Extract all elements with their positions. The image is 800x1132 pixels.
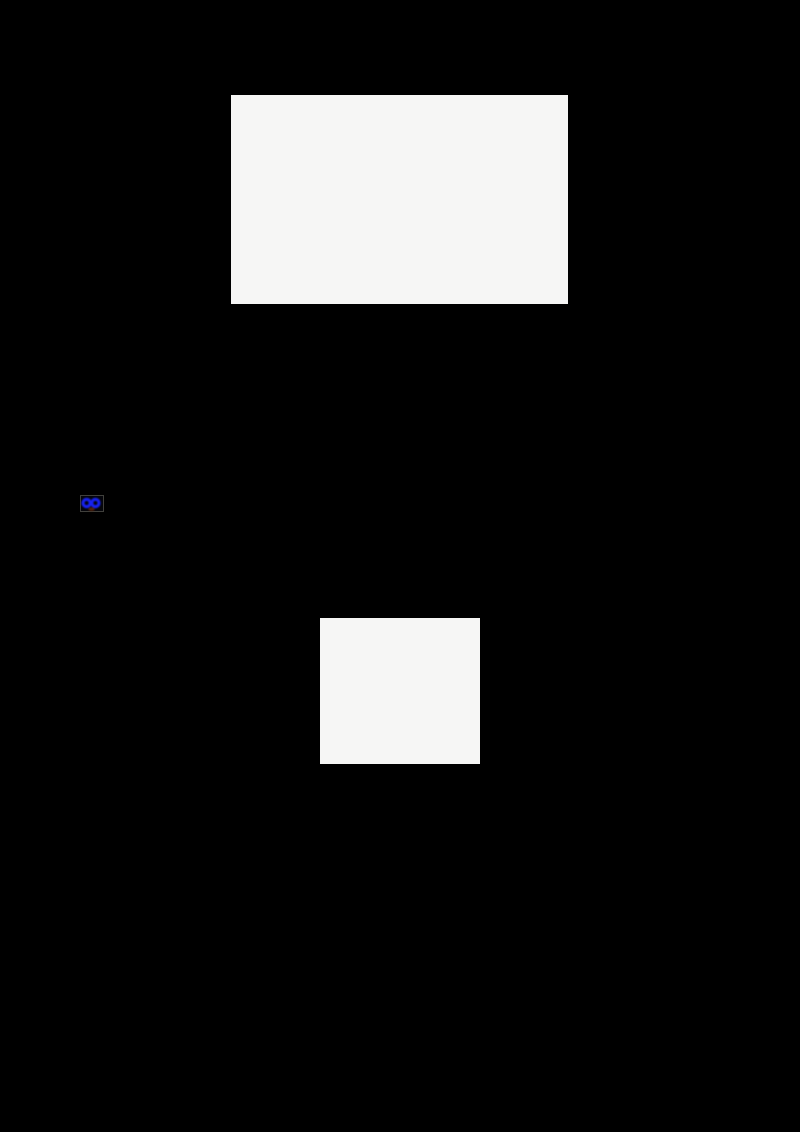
blue icon	[80, 495, 104, 512]
solubility graph panel	[320, 618, 480, 764]
apparatus figure panel	[231, 95, 568, 304]
